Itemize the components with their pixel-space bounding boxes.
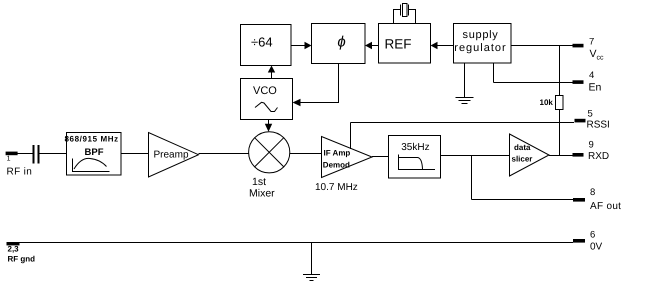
svg-text:RXD: RXD [588,151,609,162]
wire supply regulator to REF [431,42,454,49]
wire RF ground rail [19,242,573,244]
wire capacitor to BPF [40,153,67,155]
wire En: supply regulator to pin 4 [494,63,574,83]
wire VCO to ÷64 [268,66,275,79]
svg-text:Demod: Demod [323,160,350,169]
resistor 10k [540,96,564,110]
svg-text:supply: supply [463,29,499,41]
wire 35kHz filter to data slicer [441,155,510,157]
svg-text:4: 4 [589,70,594,81]
pin 8 AF out [573,187,621,212]
pin 9 RXD [573,140,610,162]
pin 6 0V [573,230,603,253]
svg-text:En: En [589,82,602,94]
wire preamp to mixer [199,153,250,155]
ground under supply regulator [456,63,474,104]
pin 4 En [573,70,602,94]
pin 5 RSSI [575,109,610,131]
wire data slicer to RXD (pin 9) [549,155,573,157]
amplifier IF Amp Demod [315,137,372,194]
svg-text:IF Amp: IF Amp [324,149,351,158]
svg-text:REF: REF [385,37,412,52]
svg-text:10k: 10k [540,98,554,107]
wire IF amp to RSSI (pin 5) [351,123,575,150]
block BPF 868/915 MHz [65,133,122,176]
wire VCO to mixer [265,120,272,132]
amplifier data slicer [510,134,550,176]
block VCO [241,79,293,120]
block divider ÷64 [241,25,292,66]
block 35kHz filter [389,136,441,179]
mixer 1st Mixer [249,132,290,200]
block REF oscillator [379,24,431,64]
wire BPF to preamp [121,153,149,155]
svg-text:Preamp: Preamp [154,150,189,161]
wire phase detector to VCO [293,64,339,107]
svg-text:9: 9 [589,140,594,151]
pin 1 RF in [6,152,33,178]
block supply regulator [454,24,512,64]
svg-text:RSSI: RSSI [587,120,610,131]
svg-text:1st: 1st [252,176,266,188]
svg-text:slicer: slicer [512,155,533,164]
svg-text:2,3: 2,3 [8,245,20,254]
svg-text:AF out: AF out [590,201,621,212]
amplifier Preamp [149,133,199,178]
pin 7 Vcc [573,37,605,62]
wire AF out tap [472,156,574,200]
capacitor C1 [33,145,40,164]
svg-text:ϕ: ϕ [337,34,345,51]
svg-text:data: data [514,143,531,152]
svg-text:35kHz: 35kHz [401,142,429,153]
svg-text:5: 5 [588,109,593,120]
svg-text:VCO: VCO [253,85,277,97]
wire ÷64 to phase detector [291,42,312,49]
wire IF amp to 35kHz filter [372,156,389,158]
svg-text:÷64: ÷64 [251,35,273,50]
ground on RF rail [303,243,320,281]
pins 2,3 RF gnd [7,242,36,264]
svg-text:868/915 MHz: 868/915 MHz [65,135,119,144]
wire REF to phase detector [365,42,378,49]
svg-text:RF gnd: RF gnd [8,255,36,264]
block phase detector U-phi [312,24,366,64]
svg-text:6: 6 [590,230,595,241]
svg-text:BPF: BPF [85,147,104,158]
crystal X1 on REF [394,4,416,24]
lowpass response symbol [399,155,436,170]
wire Vcc: supply regulator to pin 7 [511,45,573,47]
sine symbol [255,102,278,111]
svg-text:Mixer: Mixer [249,188,275,200]
svg-text:regulator: regulator [454,42,506,54]
svg-text:10.7 MHz: 10.7 MHz [315,182,358,193]
svg-text:0V: 0V [590,242,603,253]
svg-text:8: 8 [590,187,595,198]
svg-text:7: 7 [589,37,594,48]
bandpass response symbol [73,158,110,171]
node rail Vcc/En/10k/RXD [559,46,561,156]
svg-text:1: 1 [7,156,11,163]
wire RF in to capacitor [18,153,33,155]
svg-text:RF in: RF in [7,167,33,178]
wire mixer to IF amp [290,153,322,155]
